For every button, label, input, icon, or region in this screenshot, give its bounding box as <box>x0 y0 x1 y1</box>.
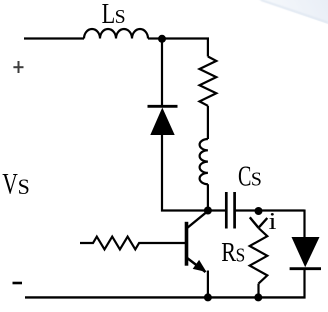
wire emitter to bottom node E <box>207 271 209 298</box>
bottom wire <box>25 296 306 298</box>
inductor Ls <box>84 29 148 39</box>
node A junction dot <box>158 35 166 43</box>
wire node A down left branch to diode D1 <box>161 39 163 107</box>
wire from Ls to node A <box>148 37 162 39</box>
node B junction dot (collector node) <box>204 207 212 215</box>
diode D1 (cathode bar) <box>148 105 178 108</box>
wire diode D2 to bottom wire <box>303 269 305 299</box>
inductor L (vertical, unlabeled) <box>200 139 208 184</box>
wire capacitor to node C <box>235 209 259 211</box>
node C junction dot <box>255 207 263 215</box>
svg-text:R: R <box>221 237 236 267</box>
svg-text:S: S <box>236 245 246 267</box>
svg-text:S: S <box>251 170 262 191</box>
wire top-left from + terminal <box>24 37 84 39</box>
svg-text:S: S <box>18 174 30 199</box>
resistor Rs <box>250 228 268 284</box>
diode D2 (triangle, pointing down) <box>292 237 320 267</box>
capacitor Cs (left plate) <box>225 192 228 229</box>
transistor Q1 (collector lead) <box>187 211 208 229</box>
wire to diode D2 <box>303 210 305 239</box>
capacitor Cs (right plate) <box>233 192 236 229</box>
wire inductor L to node B <box>207 184 209 210</box>
svg-text:i: i <box>269 209 277 235</box>
wire resistor to inductor L <box>207 106 209 139</box>
terminal + <box>13 61 23 73</box>
base resistor (unlabeled) <box>80 237 185 250</box>
node E junction dot <box>204 293 212 301</box>
diode D1 (triangle, pointing up) <box>150 108 174 136</box>
transistor Q1 (base bar) <box>185 222 189 266</box>
svg-text:C: C <box>238 161 251 192</box>
diode D2 (cathode bar) <box>290 267 321 270</box>
terminal - <box>13 282 23 285</box>
transistor Q1 (emitter lead) <box>187 258 206 273</box>
node D junction dot <box>254 293 262 301</box>
transistor Q1 (emitter arrow) <box>193 260 207 272</box>
current arrow i <box>250 217 267 228</box>
background corner shading <box>258 0 328 24</box>
wire Rs to bottom node D <box>257 284 259 298</box>
svg-text:L: L <box>102 0 116 30</box>
svg-text:V: V <box>2 168 18 200</box>
svg-text:S: S <box>115 6 126 28</box>
resistor R (upper right, unlabeled) <box>199 57 216 106</box>
wire node C to diode D2 branch <box>259 209 305 211</box>
wire diode D1 to bottom-left corner of loop <box>162 135 225 211</box>
wire node A to top-right corner <box>162 39 208 57</box>
